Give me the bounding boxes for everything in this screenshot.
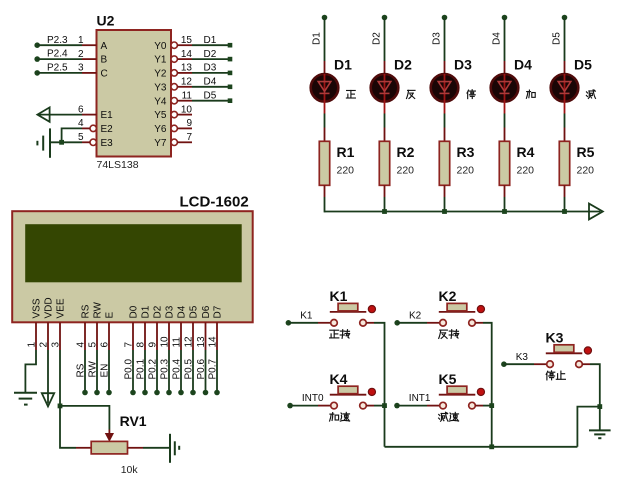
svg-text:INT0: INT0 [302,393,324,404]
svg-text:D1: D1 [334,57,352,73]
svg-text:P0.5: P0.5 [183,358,194,379]
node K2 terminal dot [394,320,400,326]
push button K2 [439,303,485,326]
svg-text:D4: D4 [514,57,532,73]
input terminal arrow at E1 [37,107,49,121]
svg-text:4: 4 [75,342,86,348]
wire E3 to ground [50,141,90,143]
svg-text:K5: K5 [439,371,457,387]
U2 pin Y5 stub [177,114,192,116]
svg-text:Y3: Y3 [154,82,167,93]
push button K4 [330,386,376,409]
wire INT0 to K4 [290,405,330,407]
svg-text:14: 14 [181,49,193,60]
svg-text:K3: K3 [546,329,564,345]
svg-text:220: 220 [457,165,475,177]
LCD pin 6 stub [108,322,110,350]
svg-text:9: 9 [147,342,158,348]
svg-text:K2: K2 [409,310,422,321]
svg-text:K3: K3 [516,352,529,363]
node D2 terminal dot [382,15,388,21]
svg-text:Y1: Y1 [154,55,167,66]
svg-text:E3: E3 [101,138,114,149]
svg-text:10: 10 [159,336,170,348]
U2 pin Y5 bubble [171,111,177,117]
wire R3 to bus [444,185,446,212]
svg-text:D2: D2 [153,305,164,318]
wire K4 to K1 column [374,405,385,407]
node P0.7 terminal dot [214,390,220,396]
svg-text:VEE: VEE [56,298,67,318]
wire E1 [39,114,97,116]
svg-text:VDD: VDD [44,297,55,318]
node D4 pad [228,85,233,90]
svg-text:K1: K1 [300,310,313,321]
node INT0 terminal dot [287,403,293,409]
push button K1 [330,303,376,326]
svg-text:P0.0: P0.0 [123,358,134,379]
resistor R3 [439,141,449,185]
svg-text:D5: D5 [189,305,200,318]
wire R2 to bus [384,185,386,212]
svg-text:10k: 10k [121,464,139,476]
junction K3/ground [597,404,602,409]
node P0.2 terminal dot [154,390,160,396]
node D1 pad [228,43,233,48]
svg-text:B: B [101,55,108,66]
ground at LCD VSS [14,393,37,405]
LCD pin 11 stub [180,322,182,350]
svg-text:P2.5: P2.5 [47,63,68,74]
svg-text:R2: R2 [397,144,415,160]
wire LCD pin 14 to node P0.7 [216,350,218,391]
LCD-1602 screen [25,224,242,282]
svg-text:D2: D2 [372,32,383,45]
K4 chinese label [330,412,350,421]
svg-text:P0.6: P0.6 [196,358,207,379]
svg-text:D3: D3 [432,32,443,45]
svg-text:Y0: Y0 [154,41,167,52]
LED D4 [491,74,519,114]
wire Y4 to net D5 [177,100,228,102]
wire R1 to bus [324,185,326,212]
wire LCD pin 12 to node P0.5 [192,350,194,391]
junction VEE [58,404,63,409]
svg-text:5: 5 [78,132,84,143]
wire K3 to K3 [504,363,547,365]
LED D1 chinese label [346,90,355,98]
node INT1 terminal dot [394,403,400,409]
node P0.0 terminal dot [130,390,136,396]
LED D2 chinese label [406,90,415,98]
svg-text:RV1: RV1 [120,413,147,429]
node D2 pad [228,57,233,62]
K2 right stub [475,322,483,324]
svg-text:D1: D1 [204,35,217,46]
svg-text:INT1: INT1 [409,393,431,404]
wire P2.3 to U2 pin 1 [37,44,96,46]
wire VDD to power terminal [47,350,49,404]
wire LCD pin 6 to node EN [108,350,110,391]
svg-text:D7: D7 [213,305,224,318]
LCD-1602 body [12,211,253,322]
svg-text:220: 220 [397,165,415,177]
wire LED D1 to R1 [324,114,326,142]
junction bus K2/K5 column [489,444,494,449]
node RS terminal dot [82,390,88,396]
node P0.4 terminal dot [178,390,184,396]
ground at buttons [589,430,611,438]
junction bus column 5 [562,209,567,214]
node P2.5 [34,63,68,76]
svg-text:K2: K2 [439,288,457,304]
svg-text:C: C [101,69,108,80]
U2 pin E3 bubble [90,139,96,145]
svg-text:D6: D6 [201,305,212,318]
wire E2 to junction [62,128,90,142]
junction E2/E3 [59,140,64,145]
svg-text:RS: RS [75,363,86,377]
K2 chinese label [439,330,459,339]
LED D3 [431,74,459,114]
svg-text:1: 1 [26,342,37,348]
LCD pin 3 stub [59,322,61,350]
svg-text:12: 12 [181,77,193,88]
node P0.6 terminal dot [203,390,209,396]
svg-text:RW: RW [87,360,98,377]
node D5 terminal dot [562,15,568,21]
svg-text:P0.4: P0.4 [171,358,182,379]
wire D1 to LED anode [324,18,326,75]
wire D4 to LED anode [504,18,506,75]
node D4 terminal dot [502,15,508,21]
svg-text:12: 12 [183,336,194,348]
svg-text:LCD-1602: LCD-1602 [180,194,249,211]
U2 pin Y4 bubble [171,98,177,104]
node P2.3 [34,35,68,48]
svg-text:D5: D5 [574,57,592,73]
junction bus column 2 [382,209,387,214]
svg-text:1: 1 [78,35,84,46]
U2 pin Y2 bubble [171,70,177,76]
output terminal arrow (bus) [589,204,603,220]
K5 right stub [475,405,483,407]
svg-text:6: 6 [99,342,110,348]
LCD pin 13 stub [205,322,207,350]
junction bus column 3 [442,209,447,214]
svg-text:D3: D3 [454,57,472,73]
wire K5 to K2 column [483,405,492,407]
K1 right stub [366,322,374,324]
svg-text:3: 3 [50,342,61,348]
K3 chinese label [546,371,565,380]
wire K2 to K2 [397,322,439,324]
svg-text:P2.3: P2.3 [47,35,68,46]
power terminal arrow at VDD [42,393,54,406]
junction K4/K1 [382,403,387,408]
wire Y1 to net D2 [177,58,228,60]
svg-text:14: 14 [207,336,218,348]
wire K3 to ground node [590,364,600,430]
wire LED common bus [325,211,601,213]
svg-text:P0.3: P0.3 [159,358,170,379]
LCD pin 1 stub [35,322,37,350]
U2 pin Y0 bubble [171,42,177,48]
K4 right stub [366,405,374,407]
wire K1 to bus [374,323,385,447]
LCD pin 8 stub [144,322,146,350]
svg-text:9: 9 [186,118,192,129]
svg-text:E2: E2 [101,124,114,135]
wire K1 to K1 [288,322,330,324]
svg-text:10: 10 [181,104,193,115]
LCD pin 2 stub [47,322,49,350]
svg-text:RW: RW [93,301,104,318]
resistor R4 [499,141,509,185]
U2 pin Y1 bubble [171,56,177,62]
push button K5 [439,386,485,409]
wire VSS to ground [25,350,36,392]
node K1 terminal dot [286,320,292,326]
wire LED D5 to R5 [564,114,566,142]
svg-text:2: 2 [38,342,49,348]
node D1 terminal dot [322,15,328,21]
svg-text:D4: D4 [177,305,188,318]
svg-text:13: 13 [196,336,207,348]
svg-text:11: 11 [182,91,193,102]
svg-text:15: 15 [181,35,193,46]
U2 pin Y6 stub [177,127,192,129]
wire D5 to LED anode [564,18,566,75]
wire D3 to LED anode [444,18,446,75]
svg-text:Y4: Y4 [154,96,167,107]
LCD pin 12 stub [192,322,194,350]
wire LCD pin 10 to node P0.3 [168,350,170,391]
node P0.3 terminal dot [166,390,172,396]
svg-text:P0.1: P0.1 [135,358,146,379]
svg-text:220: 220 [577,165,595,177]
svg-text:E: E [105,312,116,319]
node D3 terminal dot [442,15,448,21]
svg-text:D3: D3 [165,305,176,318]
wire Y0 to net D1 [177,44,228,46]
wire P2.5 to U2 pin 3 [37,72,96,74]
push button K3 [546,345,592,368]
node K3 terminal dot [501,361,507,367]
LED D5 chinese label [586,90,595,99]
svg-text:U2: U2 [97,13,115,29]
svg-text:Y6: Y6 [154,124,167,135]
svg-text:220: 220 [517,165,535,177]
LED D5 [551,74,579,114]
svg-text:D0: D0 [129,305,140,318]
node D5 pad [228,98,233,103]
svg-text:D2: D2 [394,57,412,73]
wire RV1 right terminal to ground [128,447,170,449]
U2 pin E2 bubble [90,125,96,131]
svg-text:RS: RS [81,304,92,318]
ground (rotated) at RV1 [170,434,179,463]
wire INT1 to K5 [397,405,440,407]
svg-text:74LS138: 74LS138 [97,159,139,171]
U2 pin Y3 bubble [171,84,177,90]
wire bus to ground node [577,407,599,447]
LCD pin 9 stub [156,322,158,350]
wire LCD pin 9 to node P0.2 [156,350,158,391]
svg-text:11: 11 [171,337,182,348]
svg-text:4: 4 [78,118,84,129]
svg-text:2: 2 [78,49,84,60]
node P2.4 [34,49,68,62]
potentiometer RV1 [91,441,127,454]
wire K2 to bus [483,323,492,447]
svg-text:8: 8 [135,342,146,348]
svg-text:E1: E1 [101,110,114,121]
svg-text:A: A [101,41,108,52]
svg-text:6: 6 [78,104,84,115]
wire LCD pin 13 to node P0.6 [205,350,207,391]
svg-text:D1: D1 [141,305,152,318]
svg-text:R3: R3 [457,144,475,160]
RV1 wiper arrow [106,430,114,441]
U2 pin Y7 stub [177,141,192,143]
LCD pin 5 stub [96,322,98,350]
svg-text:Y7: Y7 [154,138,167,149]
wire button common bus [385,446,578,448]
LCD pin 7 stub [132,322,134,350]
svg-text:D4: D4 [204,77,217,88]
svg-text:D5: D5 [204,91,217,102]
wire Y3 to net D4 [177,86,228,88]
LCD pin 14 stub [216,322,218,350]
wire VEE to RV1 wiper [60,406,109,430]
resistor R1 [319,141,329,185]
svg-text:EN: EN [99,364,110,378]
resistor R2 [379,141,389,185]
junction K5/K2 [489,403,494,408]
LED D2 [371,74,399,114]
wire LCD pin 11 to node P0.4 [180,350,182,391]
svg-text:D2: D2 [204,49,217,60]
svg-text:R5: R5 [577,144,595,160]
svg-text:D4: D4 [492,32,503,45]
LCD pin 10 stub [168,322,170,350]
svg-text:3: 3 [78,63,84,74]
svg-text:K4: K4 [330,371,348,387]
svg-text:7: 7 [186,132,192,143]
ground (rotated) at U2 E3 [37,128,50,157]
svg-text:P0.7: P0.7 [207,358,218,379]
wire D2 to LED anode [384,18,386,75]
U2 pin Y6 bubble [171,125,177,131]
svg-text:13: 13 [181,63,193,74]
LCD pin 4 stub [84,322,86,350]
svg-text:P2.4: P2.4 [47,49,68,60]
svg-text:220: 220 [337,165,355,177]
wire Y2 to net D3 [177,72,228,74]
svg-text:R1: R1 [337,144,355,160]
LED D1 [311,74,339,114]
svg-text:VSS: VSS [32,298,43,318]
svg-text:Y5: Y5 [154,110,167,121]
LED D4 chinese label [526,90,535,98]
svg-text:7: 7 [123,342,134,348]
svg-text:Y2: Y2 [154,69,167,80]
wire R5 to bus [564,185,566,212]
junction bus column 4 [502,209,507,214]
svg-text:P0.2: P0.2 [147,358,158,379]
U2 pin Y7 bubble [171,139,177,145]
wire LCD pin 4 to node RS [84,350,86,391]
node RW terminal dot [94,390,100,396]
wire LED D4 to R4 [504,114,506,142]
IC U2 74LS138 body [97,30,172,157]
wire P2.4 to U2 pin 2 [37,58,96,60]
node D3 pad [228,71,233,76]
node P0.5 terminal dot [190,390,196,396]
wire LCD pin 8 to node P0.1 [144,350,146,391]
wire VEE to RV1 left terminal [60,406,91,448]
svg-text:5: 5 [87,342,98,348]
K5 chinese label [439,412,459,421]
wire LED D2 to R2 [384,114,386,142]
resistor R5 [559,141,569,185]
wire LCD pin 5 to node RW [96,350,98,391]
wire LCD pin 7 to node P0.0 [132,350,134,391]
svg-text:K1: K1 [330,288,348,304]
svg-text:D1: D1 [312,32,323,45]
wire LED D3 to R3 [444,114,446,142]
svg-text:D5: D5 [552,32,563,45]
wire R4 to bus [504,185,506,212]
LED D3 chinese label [467,90,475,99]
svg-text:R4: R4 [517,144,535,160]
node P0.1 terminal dot [142,390,148,396]
K3 right stub [582,363,590,365]
K1 chinese label [330,330,350,339]
svg-text:D3: D3 [204,63,217,74]
node EN terminal dot [106,390,112,396]
wire VEE down [59,350,61,406]
